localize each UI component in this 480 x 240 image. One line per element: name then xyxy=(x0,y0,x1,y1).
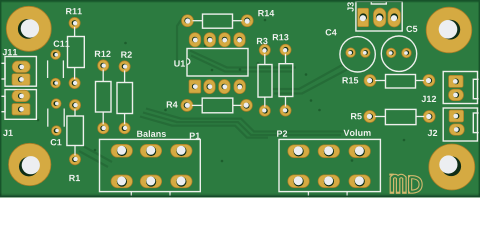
connector J3 pads xyxy=(358,8,401,27)
header P1 pads xyxy=(111,144,192,187)
capacitor C5 outline xyxy=(381,36,416,71)
op-amp U1 pads xyxy=(189,33,246,94)
capacitor C5 pads xyxy=(386,48,411,58)
header P1 outline xyxy=(100,139,201,197)
resistor R1 xyxy=(67,100,84,165)
label R14 xyxy=(258,10,274,16)
header P2 pads xyxy=(288,145,371,188)
label J12 xyxy=(421,96,436,102)
resistor R5 xyxy=(364,109,435,124)
copper trace near bottom-left mounting hole xyxy=(79,146,112,167)
label R12 xyxy=(95,51,111,57)
connector J11 pads xyxy=(12,61,30,85)
mounting hole bottom-left xyxy=(9,143,51,185)
board edge bevel top xyxy=(0,0,480,3)
label C5 xyxy=(406,26,417,32)
capacitor C4 outline xyxy=(340,37,375,72)
label R15 xyxy=(342,77,358,83)
label R2 xyxy=(121,51,132,57)
connector J11 outline xyxy=(0,57,36,87)
label R3 xyxy=(257,38,268,44)
resistor R11 xyxy=(68,17,85,88)
connector J12 outline xyxy=(443,72,480,104)
resistor R12 xyxy=(96,60,112,134)
resistor R13 xyxy=(279,44,293,116)
label C1 xyxy=(51,139,62,145)
board edge bevel right xyxy=(479,0,480,198)
mounting hole bottom-right xyxy=(429,144,475,190)
board edge bevel left xyxy=(0,0,1,198)
capacitor C4 pads xyxy=(346,48,370,58)
copper trace near C4 going down-left xyxy=(272,64,348,94)
label Balans xyxy=(137,130,166,137)
label C11 xyxy=(54,41,70,47)
label R13 xyxy=(273,34,289,40)
copper trace vertical left of R14 xyxy=(177,17,183,62)
copper trace bundle between P1 and P2 xyxy=(140,109,345,138)
label R11 xyxy=(66,8,82,14)
header P2 outline xyxy=(279,139,380,197)
mounting hole top-left xyxy=(6,6,51,51)
capacitor C11 xyxy=(48,50,64,88)
vias (small drilled dots) xyxy=(37,19,406,163)
copper trace bundle under U1 xyxy=(190,51,296,72)
connector J1 outline xyxy=(0,90,36,120)
resistor R14 xyxy=(182,14,254,28)
mounting hole top-right xyxy=(426,7,472,53)
label R1 xyxy=(69,175,80,181)
op-amp U1 body xyxy=(187,49,248,77)
connector J1 pads xyxy=(12,90,30,115)
capacitor C1 xyxy=(48,99,64,136)
label R5 xyxy=(351,113,362,119)
connector J2 outline xyxy=(443,108,480,141)
label C4 xyxy=(326,29,337,35)
resistor R2 xyxy=(117,61,133,134)
manufacturer logo mD xyxy=(389,175,420,192)
label J3 xyxy=(347,2,353,12)
connector J12 pads xyxy=(449,75,464,100)
label P1 xyxy=(190,133,200,139)
label J2 xyxy=(428,130,438,136)
resistor R4 xyxy=(181,98,253,113)
board edge bevel bottom xyxy=(0,194,480,198)
label P2 xyxy=(277,130,287,136)
resistor R3 xyxy=(258,44,272,116)
label Volum xyxy=(344,129,371,136)
resistor R15 xyxy=(364,75,435,89)
label J11 xyxy=(2,49,17,55)
connector J3 outline xyxy=(356,1,402,31)
label R4 xyxy=(167,101,178,107)
label J1 xyxy=(3,130,13,136)
connector J2 pads xyxy=(449,110,464,135)
label U1 xyxy=(174,60,185,66)
